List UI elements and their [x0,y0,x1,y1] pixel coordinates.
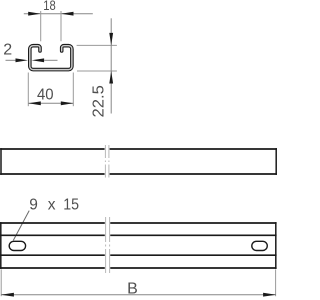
extension line left for B [0,269,2,296]
arrow up to profile bottom [109,71,113,84]
extension line right for B [275,269,277,296]
extension line right of opening [60,11,62,41]
dimension line 22.5 vertical [110,18,112,113]
arrow pointing right at wall outer face [16,58,29,62]
leader line to slot [13,211,29,241]
svg-text:x: x [48,196,56,213]
leader line for 2 (right part) [44,59,57,61]
side view rectangle [0,148,277,175]
arrow down to profile top [109,33,113,46]
break line right (side view) [108,145,110,179]
dimension line 18 [24,13,93,15]
arrow left of 40 dim pointing outward [28,101,41,105]
arrow right of 18 dim [61,12,74,16]
extension line left of opening [40,11,42,41]
bottom view rectangle [0,222,277,269]
svg-text:18: 18 [43,0,56,13]
svg-text:2: 2 [3,42,12,59]
right slot oval [252,241,267,250]
extension line right for 40 [72,73,74,107]
dimension line 40 [28,102,73,104]
arrow right of 40 dim pointing outward [61,101,74,105]
left slot oval [9,241,25,250]
extension line bottom of profile (for 22.5) [77,70,117,72]
extension line top of profile (for 22.5) [77,44,117,46]
leader line for 2 (left part) [6,59,17,61]
svg-text:40: 40 [37,86,54,103]
svg-text:B: B [127,280,138,297]
arrow right end of B pointing right [263,293,276,297]
break line right (bottom view) [109,217,111,273]
svg-text:15: 15 [63,196,79,213]
channel profile cross-section [30,46,72,70]
svg-text:22.5: 22.5 [91,85,108,117]
arrow left of 18 dim [28,12,41,16]
arrow left end of B pointing left [1,293,14,297]
break line left (side view) [104,145,106,179]
arrow pointing left at wall inner face [32,58,44,62]
extension line left for 40 [27,73,29,107]
svg-text:9: 9 [29,196,38,213]
dimension line B [1,294,276,296]
break line left (bottom view) [105,217,107,273]
